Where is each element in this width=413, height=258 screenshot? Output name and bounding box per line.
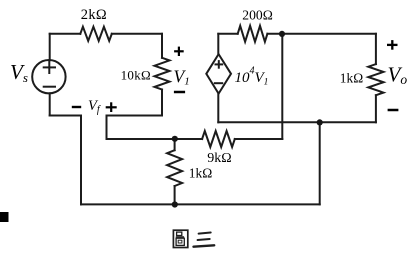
wire 9k rail right segment	[235, 138, 282, 140]
wire dependent source top lead	[217, 34, 219, 54]
resistor 1kΩ feedback bottom lead	[174, 186, 176, 204]
label V1 polarity plus	[174, 47, 184, 56]
wire load bottom lead	[375, 95, 377, 122]
wire Vf plus vertical drop	[106, 116, 108, 140]
wire 10k bottom lead	[161, 90, 163, 116]
wire Vs top lead	[49, 34, 51, 60]
wire 10k bottom horizontal to Vf plus terminal	[107, 115, 163, 117]
svg-text:200Ω: 200Ω	[242, 8, 272, 23]
dependent source 10^4 V1	[206, 54, 231, 94]
wire bottom ground rail	[81, 203, 320, 205]
svg-text:1kΩ: 1kΩ	[189, 165, 213, 180]
junction dot mid rail node	[317, 119, 323, 125]
wire mid rail from dependent source to load bottom	[218, 121, 376, 123]
label V1 polarity minus	[174, 91, 185, 94]
label Vo polarity plus	[387, 40, 398, 50]
corner mark bottom-left	[0, 212, 9, 222]
svg-text:2kΩ: 2kΩ	[81, 7, 107, 23]
resistor 9kΩ	[202, 131, 235, 147]
wire 10k top lead	[161, 34, 163, 58]
label Vf polarity minus	[72, 106, 81, 108]
label Vo polarity minus	[388, 109, 399, 112]
junction dot bottom rail node	[172, 201, 178, 207]
svg-text:9kΩ: 9kΩ	[207, 151, 231, 166]
wire feedback riser up to top node	[281, 34, 283, 139]
resistor 1kΩ feedback top lead	[174, 139, 176, 150]
resistor 200Ω	[238, 26, 268, 42]
label Vf polarity plus	[106, 102, 117, 112]
caption 圖三	[173, 230, 214, 247]
junction dot 9k/1k node	[172, 136, 178, 142]
wire Vs bottom lead	[49, 93, 51, 115]
wire Vs bottom horizontal to Vf minus terminal	[50, 115, 81, 117]
resistor 1kΩ feedback	[167, 150, 182, 186]
resistor 10kΩ	[155, 58, 170, 90]
resistor 2kΩ	[80, 27, 112, 41]
wire top rail from 200Ω to load corner	[267, 33, 376, 35]
voltage source Vs	[32, 60, 65, 93]
wire right riser from bottom rail to mid rail	[319, 122, 321, 204]
junction dot top node	[279, 31, 285, 37]
wire load top lead	[375, 34, 377, 64]
wire 9k rail left segment	[107, 138, 203, 140]
wire left vertical down to bottom rail	[80, 116, 82, 205]
wire top rail from dependent source to 200Ω	[218, 33, 237, 35]
svg-text:10kΩ: 10kΩ	[121, 68, 151, 83]
svg-text:1kΩ: 1kΩ	[340, 71, 363, 86]
resistor 1kΩ load	[368, 64, 383, 95]
wire dependent source bottom lead	[217, 93, 219, 122]
wire top-left rail from Vs to 10k top	[50, 33, 162, 35]
